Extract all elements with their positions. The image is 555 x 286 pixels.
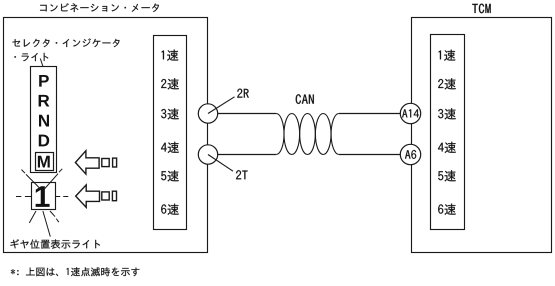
wire CAN low right <box>339 154 400 156</box>
indicator squares lower <box>102 192 109 200</box>
combination meter label <box>40 3 159 12</box>
label A14 <box>402 109 419 117</box>
CAN label <box>296 94 314 104</box>
note: figure shows 1st speed blinking <box>11 267 140 276</box>
wire CAN high right <box>339 113 400 115</box>
label 2T <box>236 170 248 179</box>
selector indicator light label line1 <box>12 38 119 47</box>
blink dashes left <box>16 196 32 198</box>
gear position light label <box>10 239 100 248</box>
blink ray lower-left <box>29 211 36 223</box>
CAN twisted pair <box>276 114 339 155</box>
gear position light box (1) <box>32 183 56 210</box>
letter D <box>39 135 49 147</box>
arrow upper <box>75 151 99 174</box>
meter gear labels 1-6 speed <box>161 50 179 215</box>
digit 1 <box>36 186 50 207</box>
blink ray lower-right <box>50 211 59 222</box>
selector indicator light label line2 <box>15 53 49 61</box>
leader to gear position light label <box>43 211 50 237</box>
connector 2T <box>198 145 217 164</box>
label 2R <box>237 89 249 98</box>
wire CAN low left <box>218 154 277 156</box>
label A6 <box>405 150 416 159</box>
letter M <box>38 156 50 168</box>
selector indicator box <box>31 67 57 173</box>
TCM gear labels 1-6 speed <box>438 50 456 215</box>
TCM box <box>412 18 552 253</box>
connector 2R <box>198 104 217 123</box>
letter N <box>39 115 49 127</box>
connector A14 <box>400 103 420 123</box>
leader 2R <box>208 97 235 114</box>
meter gear indicator column <box>154 36 187 230</box>
combination meter box <box>4 18 208 253</box>
indicator squares upper <box>102 159 109 167</box>
leader 2T <box>208 155 233 172</box>
blink ray upper-right <box>44 169 63 190</box>
TCM gear indicator column <box>431 35 465 230</box>
leader from label to selector box <box>40 59 43 67</box>
arrow lower <box>76 185 100 208</box>
letter P <box>39 75 49 87</box>
letter R <box>39 95 50 107</box>
blink ray upper-left <box>22 170 42 190</box>
TCM label <box>472 4 490 14</box>
M box <box>36 153 54 171</box>
blink dashes right <box>56 196 69 198</box>
wire CAN high left <box>218 113 277 115</box>
connector A6 <box>400 144 420 164</box>
